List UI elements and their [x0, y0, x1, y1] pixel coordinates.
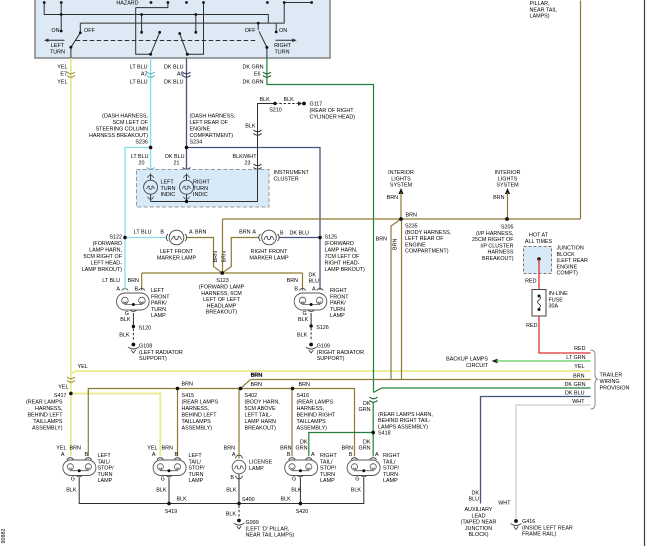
- left front park/turn lamp: [102, 278, 170, 319]
- svg-text:BRN: BRN: [573, 374, 584, 380]
- svg-text:(BODY HARNESS,: (BODY HARNESS,: [405, 230, 452, 236]
- splice S418 with DK GRN branches: [309, 401, 434, 456]
- svg-text:CIRCUIT: CIRCUIT: [466, 363, 489, 369]
- svg-text:(LEFT RADIATOR: (LEFT RADIATOR: [139, 350, 183, 356]
- svg-text:RED: RED: [525, 279, 536, 285]
- svg-text:DK BLU: DK BLU: [565, 391, 585, 397]
- svg-text:FRAME RAIL): FRAME RAIL): [522, 532, 556, 538]
- hazard / turn-signal switch box: [35, 0, 330, 58]
- svg-text:90882: 90882: [1, 529, 7, 544]
- svg-text:(REAR LAMPS: (REAR LAMPS: [182, 400, 219, 406]
- svg-text:IN-LINE: IN-LINE: [549, 291, 569, 297]
- svg-text:I/P CLUSTER: I/P CLUSTER: [480, 243, 513, 249]
- svg-text:BRN: BRN: [406, 213, 417, 219]
- left tail/stop/turn lamp 1: [56, 446, 114, 485]
- svg-text:(TAPED NEAR: (TAPED NEAR: [461, 520, 497, 526]
- svg-text:PROVISION: PROVISION: [600, 385, 630, 391]
- svg-text:RED: RED: [526, 323, 537, 329]
- svg-text:HARNESS, 6CM: HARNESS, 6CM: [201, 291, 242, 297]
- svg-text:COMPARTMENT): COMPARTMENT): [405, 249, 449, 255]
- svg-text:BREAKOUT): BREAKOUT): [482, 256, 514, 262]
- svg-text:RIGHT: RIGHT: [193, 180, 210, 186]
- svg-text:YEL: YEL: [574, 364, 584, 370]
- svg-text:7CM LEFT OF: 7CM LEFT OF: [325, 254, 361, 260]
- wire LT BLU A7 from hazard switch: [130, 58, 151, 148]
- svg-text:BRN: BRN: [493, 195, 504, 201]
- interior lights system arrow left: [387, 170, 414, 219]
- svg-text:BLK: BLK: [260, 97, 271, 103]
- wire YEL S417 branches to tail lamps: [71, 394, 160, 457]
- svg-text:LT GRN: LT GRN: [566, 355, 585, 361]
- svg-text:(LEFT 'D' PILLAR,: (LEFT 'D' PILLAR,: [246, 526, 290, 532]
- splice S417: [26, 392, 73, 432]
- svg-text:WHT: WHT: [572, 399, 585, 405]
- svg-text:RIGHT FRONT: RIGHT FRONT: [251, 249, 288, 255]
- wire RED fuse to trailer provision: [526, 316, 590, 353]
- svg-text:BLK: BLK: [226, 488, 237, 494]
- svg-text:LAMP HARN,: LAMP HARN,: [325, 248, 358, 254]
- ground lead S120 G108: [119, 313, 183, 362]
- right turn arrow: [274, 39, 297, 56]
- svg-text:BRN: BRN: [287, 278, 298, 284]
- svg-text:LEFT: LEFT: [189, 453, 203, 459]
- svg-text:BLK: BLK: [226, 512, 237, 518]
- svg-text:BRN: BRN: [387, 195, 398, 201]
- svg-text:BLK: BLK: [291, 488, 302, 494]
- svg-text:OFF: OFF: [84, 28, 95, 34]
- svg-text:(RIGHT RADIATOR: (RIGHT RADIATOR: [317, 350, 364, 356]
- svg-text:GRN: GRN: [359, 407, 371, 413]
- svg-text:BRN: BRN: [182, 381, 193, 387]
- splice S210: [269, 102, 282, 114]
- svg-text:RIGHT HEAD-: RIGHT HEAD-: [325, 261, 360, 267]
- svg-text:TAILLAMPS: TAILLAMPS: [33, 419, 63, 425]
- svg-text:BLK: BLK: [245, 124, 256, 130]
- svg-text:BEHIND LEFT: BEHIND LEFT: [27, 413, 63, 419]
- svg-text:LAMPS): LAMPS): [530, 14, 550, 20]
- svg-text:ASSEMBLY): ASSEMBLY): [32, 426, 63, 432]
- svg-text:S415: S415: [182, 393, 195, 399]
- svg-text:FRONT: FRONT: [151, 294, 170, 300]
- svg-text:SYSTEM: SYSTEM: [390, 183, 413, 189]
- right hazard OFF contact: [245, 22, 260, 35]
- svg-text:(DASH HARNESS,: (DASH HARNESS,: [190, 114, 236, 120]
- svg-text:STOP/: STOP/: [320, 466, 337, 472]
- page border right edge: [644, 0, 646, 546]
- connector on YEL at bus: [67, 377, 75, 382]
- svg-text:FUSE: FUSE: [549, 297, 564, 303]
- svg-text:DK BLU: DK BLU: [164, 65, 184, 71]
- svg-text:ALL TIMES: ALL TIMES: [525, 239, 553, 245]
- junction dots overlay: [69, 146, 509, 505]
- svg-text:(LEFT REAR: (LEFT REAR: [557, 258, 588, 264]
- svg-text:BLK: BLK: [281, 497, 292, 503]
- svg-text:TURN: TURN: [151, 307, 166, 313]
- cluster ground bus wire: [151, 170, 258, 204]
- svg-text:BREAKOUT): BREAKOUT): [206, 310, 238, 316]
- svg-text:INDIC: INDIC: [161, 192, 176, 198]
- svg-text:HARNESS: HARNESS: [487, 250, 513, 256]
- svg-text:S400: S400: [242, 497, 255, 503]
- connector on BLK/WHT: [254, 130, 262, 169]
- svg-text:LEFT OF LEFT: LEFT OF LEFT: [203, 297, 240, 303]
- splice S123 and BRN bus to park/turn lamps: [142, 219, 303, 316]
- svg-text:A: A: [61, 452, 65, 458]
- svg-text:LT BLU: LT BLU: [130, 65, 148, 71]
- svg-text:JUNCTION: JUNCTION: [557, 246, 584, 252]
- svg-text:(INSIDE LEFT REAR: (INSIDE LEFT REAR: [522, 525, 573, 531]
- svg-text:RIGHT: RIGHT: [383, 453, 400, 459]
- svg-text:BEHIND RIGHT TAIL-: BEHIND RIGHT TAIL-: [378, 418, 431, 424]
- svg-text:RIGHT: RIGHT: [320, 453, 337, 459]
- svg-text:BLK: BLK: [297, 333, 308, 339]
- svg-text:BLK: BLK: [177, 497, 188, 503]
- svg-text:5CM ABOVE: 5CM ABOVE: [245, 406, 277, 412]
- svg-text:G117: G117: [310, 102, 323, 108]
- svg-text:(BODY HARN,: (BODY HARN,: [245, 400, 281, 406]
- svg-text:YEL: YEL: [56, 446, 66, 452]
- svg-text:LICENSE: LICENSE: [249, 460, 272, 466]
- svg-text:HARNESS,: HARNESS,: [297, 406, 325, 412]
- svg-text:BRN: BRN: [280, 446, 291, 452]
- svg-text:BLK: BLK: [284, 97, 295, 103]
- svg-text:S235: S235: [405, 224, 418, 230]
- svg-text:LEFT: LEFT: [51, 43, 65, 49]
- wire YEL label and connector above S417: [58, 364, 87, 391]
- right tail/stop/turn lamp 4: [342, 440, 401, 485]
- svg-text:SUPPORT): SUPPORT): [317, 356, 345, 362]
- ground G416: [511, 519, 573, 538]
- svg-text:LAMP: LAMP: [249, 466, 264, 472]
- svg-text:S418: S418: [378, 431, 391, 437]
- svg-text:20: 20: [139, 161, 145, 167]
- wire DK GRN E6 from hazard switch: [243, 58, 382, 393]
- svg-text:A: A: [116, 287, 120, 293]
- svg-text:BEHIND RIGHT: BEHIND RIGHT: [297, 413, 336, 419]
- svg-text:HEADLAMP: HEADLAMP: [207, 303, 237, 309]
- svg-text:GRN: GRN: [296, 446, 308, 452]
- trailer wiring provision bracket: [591, 350, 630, 409]
- license lamp: [224, 446, 273, 482]
- BLK ground bus for rear lamps: [66, 474, 364, 504]
- svg-text:CYLINDER HEAD): CYLINDER HEAD): [310, 115, 356, 121]
- svg-text:TAIL/: TAIL/: [189, 459, 202, 465]
- svg-text:STOP/: STOP/: [189, 466, 206, 472]
- svg-text:G: G: [355, 476, 359, 482]
- svg-text:G109: G109: [317, 344, 330, 350]
- svg-text:LEFT: LEFT: [98, 453, 112, 459]
- svg-text:B: B: [349, 452, 353, 458]
- svg-text:BRN: BRN: [239, 230, 250, 236]
- svg-text:MARKER LAMP: MARKER LAMP: [249, 255, 289, 261]
- svg-text:HOT AT: HOT AT: [529, 233, 549, 239]
- svg-text:LEFT TAIL-: LEFT TAIL-: [245, 413, 272, 419]
- svg-text:TURN: TURN: [193, 186, 208, 192]
- svg-text:BLK: BLK: [66, 488, 77, 494]
- hazard switch blade: [69, 33, 80, 58]
- BRN bus S235/S205: [223, 218, 581, 220]
- svg-text:BRN: BRN: [393, 239, 399, 250]
- svg-text:YEL: YEL: [57, 65, 67, 71]
- svg-text:A: A: [375, 452, 379, 458]
- wire BRN from right marker A: [222, 230, 259, 273]
- svg-text:S402: S402: [245, 393, 258, 399]
- svg-text:ON: ON: [279, 28, 287, 34]
- svg-text:RED: RED: [574, 346, 585, 352]
- svg-text:PARK/: PARK/: [151, 301, 167, 307]
- BRN rear bus with end drops: [88, 389, 354, 457]
- svg-text:S123: S123: [216, 278, 229, 284]
- junction block (left rear engine compt): [524, 233, 588, 277]
- svg-text:COMPT): COMPT): [557, 271, 578, 277]
- right switch blade: [259, 31, 268, 58]
- svg-text:BRN: BRN: [162, 446, 173, 452]
- left front marker lamp: [157, 230, 197, 261]
- svg-text:(DASH HARNESS,: (DASH HARNESS,: [102, 114, 148, 120]
- svg-text:AUXILIARY: AUXILIARY: [464, 507, 492, 513]
- svg-text:TAILLAMPS: TAILLAMPS: [297, 419, 327, 425]
- hazard OFF contact: [79, 23, 96, 34]
- svg-text:LAMP BRKOUT): LAMP BRKOUT): [82, 267, 123, 273]
- svg-text:BACKUP LAMPS: BACKUP LAMPS: [446, 357, 488, 363]
- svg-text:S234: S234: [190, 140, 203, 146]
- svg-text:B: B: [287, 452, 291, 458]
- svg-text:S205: S205: [501, 225, 514, 231]
- svg-text:LAMP: LAMP: [383, 478, 398, 484]
- svg-text:DK GRN: DK GRN: [243, 80, 264, 86]
- right front park/turn lamp: [287, 273, 350, 320]
- wire DK BLU cct 21 into cluster: [165, 148, 186, 169]
- svg-text:ASSEMBLY): ASSEMBLY): [297, 426, 328, 432]
- svg-text:LT BLU: LT BLU: [130, 80, 148, 86]
- right hazard ON contact: [275, 23, 287, 34]
- svg-text:DK BLU: DK BLU: [290, 231, 310, 237]
- svg-text:TURN: TURN: [320, 472, 335, 478]
- svg-text:INDIC: INDIC: [193, 192, 208, 198]
- svg-text:BRN: BRN: [195, 230, 206, 236]
- switch internal rails: [44, 3, 311, 55]
- svg-text:G: G: [292, 476, 296, 482]
- svg-text:BRN: BRN: [299, 382, 310, 388]
- svg-text:S416: S416: [297, 393, 310, 399]
- svg-text:BLU: BLU: [469, 497, 480, 503]
- svg-text:B: B: [85, 452, 89, 458]
- svg-text:S125: S125: [325, 235, 338, 241]
- svg-text:YEL: YEL: [57, 80, 67, 86]
- svg-text:YEL: YEL: [147, 446, 157, 452]
- svg-text:S122: S122: [109, 235, 122, 241]
- svg-text:A: A: [189, 230, 193, 236]
- connector on DK GRN: [263, 72, 271, 77]
- svg-text:TURN: TURN: [275, 49, 290, 55]
- svg-text:BRN: BRN: [213, 251, 219, 262]
- svg-text:(REAR OF RIGHT: (REAR OF RIGHT: [310, 108, 355, 114]
- svg-text:B: B: [294, 287, 298, 293]
- splice S125: [318, 235, 365, 274]
- svg-text:BLU: BLU: [309, 279, 320, 285]
- svg-text:MARKER LAMP: MARKER LAMP: [157, 255, 197, 261]
- hazard ON contact: [51, 3, 62, 35]
- connector on DK BLU: [183, 72, 191, 77]
- svg-text:PILLAR,: PILLAR,: [530, 1, 551, 7]
- wire DK BLU A6 from hazard switch: [164, 58, 186, 148]
- svg-text:TURN: TURN: [50, 49, 65, 55]
- svg-text:BREAKOUT): BREAKOUT): [245, 426, 277, 432]
- svg-text:BLK: BLK: [119, 333, 130, 339]
- svg-text:JUNCTION: JUNCTION: [465, 526, 492, 532]
- svg-text:G416: G416: [522, 519, 535, 525]
- svg-text:B: B: [280, 231, 284, 237]
- svg-text:(REAR LAMPS HARN,: (REAR LAMPS HARN,: [378, 412, 433, 418]
- splice S236 with harness text: [89, 114, 152, 150]
- wire BLK/WHT cct 23: [233, 97, 295, 170]
- svg-text:TAIL/: TAIL/: [98, 459, 111, 465]
- ground lead S126 G109: [297, 313, 364, 362]
- svg-text:25CM RIGHT OF: 25CM RIGHT OF: [472, 237, 514, 243]
- svg-text:LEFT HEAD-: LEFT HEAD-: [91, 261, 123, 267]
- svg-text:S210: S210: [269, 108, 282, 114]
- svg-text:S417: S417: [54, 393, 67, 399]
- svg-text:SYSTEM: SYSTEM: [496, 183, 519, 189]
- svg-text:CLUSTER: CLUSTER: [274, 176, 299, 182]
- wire YEL E7 from hazard switch: [57, 58, 590, 394]
- svg-text:RIGHT: RIGHT: [274, 43, 291, 49]
- splice S122: [82, 235, 127, 274]
- wire BRN drops from S235 to trailer bus: [376, 219, 402, 380]
- svg-text:A: A: [232, 452, 236, 458]
- svg-text:DK GRN: DK GRN: [243, 65, 264, 71]
- switch contact dots top row: [43, 1, 313, 4]
- svg-text:BRN: BRN: [251, 372, 262, 378]
- wire LT BLU cct 20 into cluster: [131, 148, 151, 169]
- svg-text:E7: E7: [60, 72, 67, 78]
- wire LT BLU branch to S122: [125, 148, 151, 238]
- splice S400: [237, 497, 254, 505]
- splice S419: [165, 502, 178, 515]
- right tail/stop/turn lamp 3: [280, 440, 337, 485]
- splice S205: [472, 217, 514, 262]
- svg-text:STOP/: STOP/: [383, 466, 400, 472]
- splice S235: [399, 213, 451, 255]
- svg-text:BLK: BLK: [298, 317, 309, 323]
- svg-text:ON: ON: [51, 28, 59, 34]
- svg-text:21: 21: [174, 161, 180, 167]
- svg-text:FRONT: FRONT: [330, 294, 349, 300]
- ground G117 dashed lead: [275, 101, 355, 120]
- svg-text:BRN: BRN: [224, 446, 235, 452]
- wire BRN trailer row: [251, 373, 591, 380]
- svg-text:WHT: WHT: [498, 501, 511, 507]
- svg-text:S120: S120: [139, 326, 152, 332]
- splice S416: [291, 382, 336, 456]
- svg-text:TAILLAMPS: TAILLAMPS: [182, 419, 212, 425]
- svg-text:HARNESS,: HARNESS,: [182, 406, 210, 412]
- svg-text:BLK: BLK: [156, 488, 167, 494]
- svg-text:BLK: BLK: [351, 488, 362, 494]
- wire DK BLU trailer row / auxiliary lead: [461, 391, 591, 539]
- left tail/stop/turn lamp 2: [147, 446, 205, 485]
- mechanical link dashed: [76, 40, 257, 42]
- in-line fuse 30A: [532, 290, 568, 317]
- svg-text:(FORWARD: (FORWARD: [325, 241, 354, 247]
- svg-text:LEFT REAR OF: LEFT REAR OF: [405, 236, 444, 242]
- svg-text:ENGINE: ENGINE: [190, 127, 211, 133]
- svg-text:LAMP: LAMP: [151, 313, 166, 319]
- ground G999 dashed lead: [226, 506, 295, 539]
- backup lamps circuit arrow and LT GRN wire: [446, 355, 590, 369]
- right front marker lamp: [249, 230, 289, 261]
- svg-text:(FORWARD: (FORWARD: [93, 241, 122, 247]
- left turn arrow: [44, 39, 65, 56]
- svg-text:LEFT FRONT: LEFT FRONT: [160, 249, 194, 255]
- svg-text:S236: S236: [135, 140, 148, 146]
- svg-text:SUPPORT): SUPPORT): [139, 356, 167, 362]
- svg-text:PARK/: PARK/: [330, 301, 346, 307]
- svg-text:GRN: GRN: [359, 446, 371, 452]
- svg-text:LT BLU: LT BLU: [102, 278, 120, 284]
- right turn indicator lamp: [180, 174, 211, 202]
- svg-text:LEFT: LEFT: [151, 288, 165, 294]
- svg-text:(REAR LAMPS: (REAR LAMPS: [297, 400, 334, 406]
- svg-text:HARNESS BREAKOUT): HARNESS BREAKOUT): [89, 133, 148, 139]
- svg-text:B: B: [175, 452, 179, 458]
- svg-text:G: G: [71, 476, 75, 482]
- svg-text:(I/P HARNESS,: (I/P HARNESS,: [476, 231, 514, 237]
- svg-text:NEAR TAIL LAMPS): NEAR TAIL LAMPS): [246, 533, 295, 539]
- svg-text:23: 23: [245, 161, 251, 167]
- svg-text:HAZARD: HAZARD: [116, 1, 138, 7]
- svg-text:BRN: BRN: [128, 278, 139, 284]
- svg-text:BLK: BLK: [120, 317, 131, 323]
- connector on LT BLU at cluster: [147, 168, 155, 173]
- svg-text:LEFT: LEFT: [161, 180, 175, 186]
- interior lights system arrow right: [493, 170, 520, 219]
- svg-text:LAMPS ASSEMBLY): LAMPS ASSEMBLY): [378, 424, 428, 430]
- svg-text:B: B: [160, 230, 164, 236]
- svg-text:LAMP: LAMP: [189, 478, 204, 484]
- svg-text:STEERING COLUMN: STEERING COLUMN: [96, 127, 149, 133]
- svg-text:S419: S419: [165, 509, 178, 515]
- svg-text:(REAR LAMPS: (REAR LAMPS: [26, 400, 63, 406]
- svg-text:HARNESS,: HARNESS,: [35, 406, 63, 412]
- splice S420: [296, 502, 309, 515]
- svg-text:BRN: BRN: [251, 382, 262, 388]
- svg-text:G108: G108: [139, 344, 152, 350]
- svg-text:ASSEMBLY): ASSEMBLY): [182, 426, 213, 432]
- svg-text:(FORWARD LAMP: (FORWARD LAMP: [199, 285, 245, 291]
- svg-text:S420: S420: [296, 509, 309, 515]
- connector on YEL below box: [67, 72, 75, 77]
- wire BRN from left marker A: [187, 230, 222, 273]
- svg-text:S126: S126: [316, 325, 329, 331]
- svg-text:TRAILER: TRAILER: [600, 373, 623, 379]
- right-turn-side contact and blade: [178, 13, 197, 56]
- svg-text:TAIL/: TAIL/: [320, 459, 333, 465]
- svg-text:LIGHTS: LIGHTS: [391, 176, 411, 182]
- svg-text:LAMP: LAMP: [330, 313, 345, 319]
- svg-text:INSTRUMENT: INSTRUMENT: [274, 170, 310, 176]
- wire DK BLU to right marker lamp: [280, 231, 321, 238]
- svg-text:BEHIND LEFT: BEHIND LEFT: [182, 413, 218, 419]
- svg-text:STOP/: STOP/: [98, 466, 115, 472]
- svg-text:NEAR TAIL: NEAR TAIL: [530, 7, 557, 13]
- svg-text:B: B: [135, 287, 139, 293]
- splice S402 with riser to trailer BRN: [239, 372, 280, 458]
- wire RED junction block to fuse: [525, 259, 539, 290]
- wire DK GRN trailer row: [382, 382, 591, 388]
- svg-text:30A: 30A: [549, 304, 559, 310]
- svg-text:LAMP: LAMP: [320, 478, 335, 484]
